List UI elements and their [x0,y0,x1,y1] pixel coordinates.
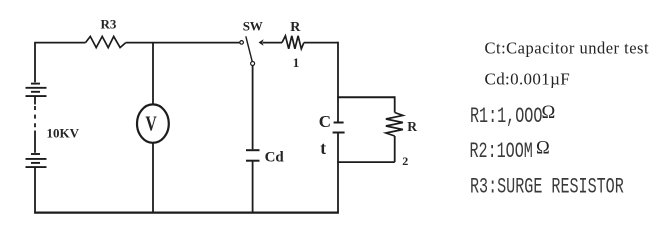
wire voltmeter branch upper [152,43,154,105]
svg-text:R1:1,OOO: R1:1,OOO [470,103,542,129]
wire R2 bottom lead [394,136,396,162]
battery 10KV upper cells [26,84,47,97]
wire arrow to R1 [263,42,282,44]
resistor R2 (vertical) [386,113,403,137]
capacitor Ct [333,123,345,133]
wire top-left horizontal [34,42,85,44]
wire R2 top lead [394,96,396,112]
wire right vertical upper [337,42,339,122]
wire R1 to top-right corner [304,42,338,44]
svg-text:Cd:0.001µF: Cd:0.001µF [485,70,571,89]
voltmeter V (meter body) [137,104,169,142]
wire left vertical lower [34,167,36,212]
wire right vertical lower [337,134,339,213]
svg-text:R: R [290,20,301,35]
wire switch pivot down to Cd [252,66,254,150]
switch SW [240,36,255,65]
resistor R3 [86,36,126,47]
wire bottom horizontal [34,212,339,214]
svg-text:2: 2 [402,154,408,168]
svg-text:SW: SW [243,18,263,33]
svg-text:1: 1 [293,55,300,70]
wire Ct/R2 loop top [337,96,395,98]
svg-text:t: t [320,138,326,158]
wire left vertical upper [34,43,36,83]
wire Cd to bottom [252,162,254,213]
svg-text:10KV: 10KV [47,126,80,141]
wire Ct/R2 loop bottom [337,161,395,163]
capacitor Cd [246,150,260,161]
wire R3 to switch [126,42,240,44]
svg-text:R3:SURGE RESISTOR: R3:SURGE RESISTOR [470,174,624,200]
svg-text:Ω: Ω [542,103,556,123]
svg-text:Ct:Capacitor under test: Ct:Capacitor under test [485,38,650,57]
svg-text:Ω: Ω [536,139,550,159]
arrow contact (right side of switch) [259,39,264,45]
resistor R1 [282,36,304,49]
svg-text:R3: R3 [101,17,117,32]
svg-text:R2:1OOM: R2:1OOM [470,138,533,164]
svg-text:C: C [319,112,331,131]
battery 10KV lower cells [26,154,47,167]
svg-text:Cd: Cd [265,149,285,165]
svg-text:R: R [407,119,417,134]
svg-text:V: V [145,112,157,136]
wire voltmeter branch lower [152,143,154,213]
battery internal dashed wire [34,96,36,153]
